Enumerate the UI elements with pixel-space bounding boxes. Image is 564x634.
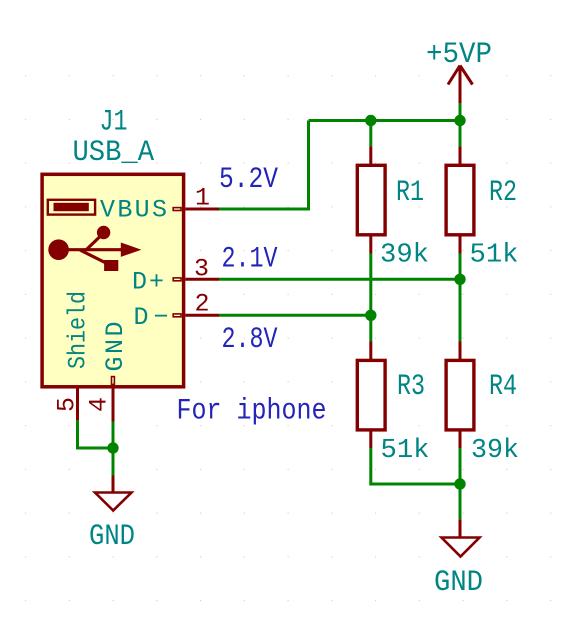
junction xyxy=(454,478,465,489)
ground left xyxy=(89,476,135,555)
pin 5 Shield of J1 xyxy=(53,387,82,420)
USB trident icon xyxy=(48,226,141,271)
svg-text:USB_A: USB_A xyxy=(73,136,155,170)
wire xyxy=(78,420,114,448)
pin 3 D+ of J1 xyxy=(173,255,219,284)
wire xyxy=(459,119,462,146)
wire xyxy=(219,121,309,210)
svg-text:GND: GND xyxy=(101,322,130,372)
power +5VP xyxy=(426,38,492,103)
wire xyxy=(219,278,460,281)
svg-text:51k: 51k xyxy=(470,241,519,271)
wire xyxy=(219,314,371,317)
VBUS blade icon xyxy=(48,200,95,215)
svg-text:51k: 51k xyxy=(381,436,430,466)
svg-text:R1: R1 xyxy=(396,176,424,210)
svg-text:1: 1 xyxy=(195,184,210,213)
svg-text:2.8V: 2.8V xyxy=(222,323,278,357)
resistor R2 xyxy=(446,146,518,270)
wire xyxy=(459,103,462,122)
wire xyxy=(112,422,115,476)
junction xyxy=(365,310,376,321)
svg-text:2.1V: 2.1V xyxy=(222,243,278,277)
svg-text:39k: 39k xyxy=(471,436,519,466)
pin 2 D- of J1 xyxy=(173,290,219,319)
svg-text:R4: R4 xyxy=(489,370,517,404)
svg-text:Shield: Shield xyxy=(64,291,93,369)
svg-text:J1: J1 xyxy=(100,106,128,140)
pin 1 VBUS of J1 xyxy=(173,184,219,213)
resistor R1 xyxy=(357,146,429,270)
resistor R3 xyxy=(357,342,429,467)
pin 4 GND of J1 xyxy=(85,377,115,422)
wire xyxy=(369,254,372,342)
svg-text:+5VP: +5VP xyxy=(426,38,492,72)
wire xyxy=(459,254,462,342)
connector J1 body xyxy=(42,174,184,386)
junction xyxy=(454,274,465,285)
svg-text:5.2V: 5.2V xyxy=(219,163,278,197)
wire xyxy=(309,119,461,122)
junction xyxy=(107,442,118,453)
wire xyxy=(369,119,372,146)
junction xyxy=(365,115,376,126)
svg-text:4: 4 xyxy=(85,397,114,412)
svg-text:3: 3 xyxy=(194,255,209,284)
svg-text:39k: 39k xyxy=(380,241,429,271)
svg-text:D+: D+ xyxy=(132,268,164,297)
svg-text:GND: GND xyxy=(89,520,135,554)
svg-text:5: 5 xyxy=(53,397,82,412)
svg-text:For iphone: For iphone xyxy=(177,395,327,429)
resistor R4 xyxy=(446,342,519,467)
svg-text:R2: R2 xyxy=(489,176,517,210)
wire xyxy=(371,448,460,484)
svg-text:2: 2 xyxy=(195,290,210,319)
junction xyxy=(454,115,465,126)
ground right xyxy=(434,519,483,600)
wire xyxy=(459,448,462,519)
svg-text:R3: R3 xyxy=(397,370,425,404)
svg-text:GND: GND xyxy=(434,566,483,600)
